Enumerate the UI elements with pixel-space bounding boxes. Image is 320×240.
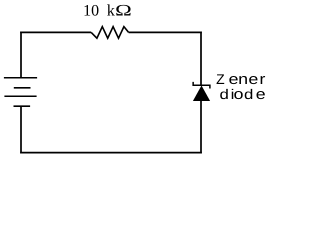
label: 10 kOhm value, omega symbol <box>116 5 130 16</box>
label: Zener, letter Z <box>217 74 225 84</box>
wire: bottom wire from bottom-right corner to bottom-left corner <box>20 152 202 154</box>
battery long plate 1 (top, positive terminal) <box>4 77 37 79</box>
wire: resistor right lead to top-right corner <box>129 31 202 33</box>
battery long plate 2 <box>4 95 36 97</box>
resistor 10 kOhm zigzag <box>91 27 128 39</box>
zener diode anode triangle <box>193 86 210 102</box>
wire: bottom-left corner up to battery negative plate <box>20 106 22 153</box>
label: 10 kOhm value, digit 1 <box>85 5 91 16</box>
label: Zener, letters ener (x-stretched) <box>229 76 265 84</box>
battery short plate 1 <box>14 87 31 89</box>
label: diode, letters d i o d e (x-stretched) <box>220 89 265 99</box>
wire: top-right corner down to zener cathode <box>200 32 202 86</box>
label: 10 kOhm value, digit 0 <box>92 5 99 16</box>
label: 10 kOhm value, letter k <box>107 4 115 15</box>
battery short plate 2 (bottom, negative terminal) <box>14 105 31 107</box>
wire: top-left corner down to battery positive plate <box>20 32 22 78</box>
zener diode cathode bar with bent ends <box>193 82 210 89</box>
wire: zener anode down to bottom-right corner <box>200 100 202 153</box>
wire: top-left corner to resistor left lead <box>20 31 91 33</box>
